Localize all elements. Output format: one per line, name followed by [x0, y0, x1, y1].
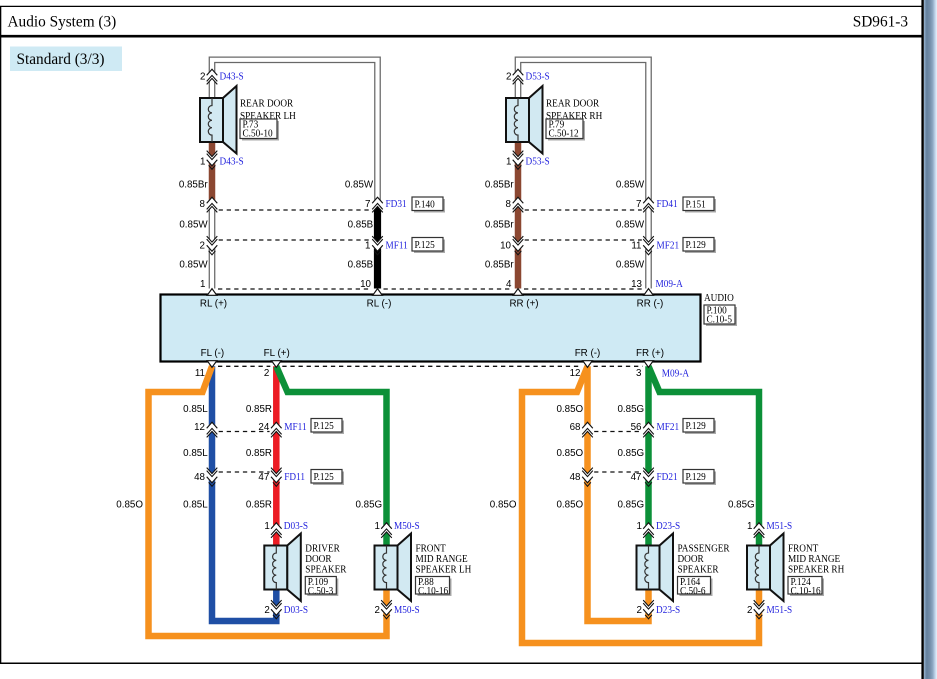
svg-text:P.129: P.129 — [686, 472, 706, 483]
svg-text:FRONT: FRONT — [788, 543, 819, 554]
svg-text:1: 1 — [637, 521, 642, 532]
svg-text:1: 1 — [747, 521, 752, 532]
svg-text:1: 1 — [200, 279, 205, 290]
svg-text:0.85G: 0.85G — [617, 500, 644, 511]
svg-text:0.85R: 0.85R — [246, 500, 272, 511]
svg-text:1: 1 — [506, 157, 511, 168]
svg-text:10: 10 — [500, 241, 511, 252]
svg-text:M50-S: M50-S — [394, 605, 420, 616]
svg-text:FL (+): FL (+) — [264, 348, 290, 359]
svg-text:C.50-3: C.50-3 — [308, 586, 334, 597]
svg-text:47: 47 — [258, 472, 269, 483]
svg-text:Standard (3/3): Standard (3/3) — [17, 51, 105, 68]
svg-text:C.50-10: C.50-10 — [243, 129, 273, 140]
svg-text:P.129: P.129 — [686, 421, 706, 432]
svg-text:SPEAKER RH: SPEAKER RH — [788, 565, 845, 576]
svg-text:M51-S: M51-S — [767, 605, 793, 616]
svg-text:RL (+): RL (+) — [200, 299, 227, 310]
svg-text:0.85O: 0.85O — [556, 404, 583, 415]
svg-text:0.85L: 0.85L — [183, 404, 208, 415]
svg-text:FD41: FD41 — [657, 199, 678, 210]
svg-text:3: 3 — [636, 368, 642, 379]
svg-text:48: 48 — [570, 472, 581, 483]
svg-text:MF11: MF11 — [386, 241, 408, 252]
svg-text:RR (+): RR (+) — [509, 299, 538, 310]
svg-text:SD961-3: SD961-3 — [853, 14, 909, 31]
svg-text:C.10-5: C.10-5 — [707, 315, 733, 326]
svg-text:0.85W: 0.85W — [616, 260, 645, 271]
svg-text:AUDIO: AUDIO — [704, 293, 734, 304]
svg-text:8: 8 — [506, 199, 512, 210]
svg-text:D23-S: D23-S — [656, 521, 680, 532]
svg-text:48: 48 — [194, 472, 205, 483]
svg-text:D53-S: D53-S — [526, 157, 550, 168]
svg-text:0.85O: 0.85O — [556, 448, 583, 459]
svg-text:47: 47 — [631, 472, 642, 483]
svg-text:P.151: P.151 — [686, 199, 706, 210]
svg-text:Audio System (3): Audio System (3) — [8, 14, 117, 31]
svg-text:REAR DOOR: REAR DOOR — [546, 98, 599, 109]
svg-text:P.140: P.140 — [415, 199, 435, 210]
svg-text:1: 1 — [365, 241, 370, 252]
svg-text:FR (+): FR (+) — [636, 348, 664, 359]
svg-text:D03-S: D03-S — [284, 605, 308, 616]
svg-text:0.85O: 0.85O — [556, 500, 583, 511]
svg-text:D23-S: D23-S — [656, 605, 680, 616]
svg-text:0.85O: 0.85O — [490, 500, 517, 511]
svg-text:0.85B: 0.85B — [348, 220, 374, 231]
svg-text:C.10-16: C.10-16 — [418, 586, 448, 597]
svg-text:D43-S: D43-S — [220, 72, 244, 83]
svg-text:FD31: FD31 — [386, 199, 407, 210]
svg-text:P.125: P.125 — [415, 240, 435, 251]
svg-text:2: 2 — [747, 605, 752, 616]
svg-text:DRIVER: DRIVER — [305, 543, 340, 554]
svg-text:2: 2 — [200, 72, 205, 83]
svg-text:2: 2 — [200, 241, 205, 252]
svg-text:0.85Br: 0.85Br — [179, 180, 209, 191]
svg-text:M09-A: M09-A — [662, 369, 690, 380]
svg-text:2: 2 — [264, 368, 269, 379]
svg-text:SPEAKER: SPEAKER — [305, 565, 346, 576]
svg-text:DOOR: DOOR — [305, 554, 331, 565]
svg-text:FL (-): FL (-) — [201, 348, 225, 359]
svg-text:1: 1 — [200, 157, 205, 168]
svg-text:10: 10 — [360, 279, 371, 290]
svg-text:C.10-16: C.10-16 — [791, 586, 821, 597]
svg-text:12: 12 — [570, 368, 581, 379]
svg-text:0.85R: 0.85R — [246, 404, 272, 415]
svg-text:0.85W: 0.85W — [616, 220, 645, 231]
svg-text:2: 2 — [506, 72, 511, 83]
svg-text:MF21: MF21 — [657, 241, 680, 252]
svg-text:0.85W: 0.85W — [179, 260, 208, 271]
svg-text:P.125: P.125 — [314, 421, 334, 432]
svg-text:REAR DOOR: REAR DOOR — [240, 98, 293, 109]
svg-text:0.85W: 0.85W — [345, 180, 374, 191]
svg-text:M51-S: M51-S — [767, 521, 793, 532]
svg-text:FD21: FD21 — [657, 472, 678, 483]
svg-text:7: 7 — [636, 199, 641, 210]
svg-text:2: 2 — [375, 605, 380, 616]
svg-text:D43-S: D43-S — [220, 157, 244, 168]
svg-text:1: 1 — [264, 521, 269, 532]
svg-text:MF11: MF11 — [284, 422, 306, 433]
svg-text:RR (-): RR (-) — [637, 299, 664, 310]
svg-text:0.85G: 0.85G — [355, 500, 382, 511]
svg-text:MID RANGE: MID RANGE — [416, 554, 468, 565]
svg-text:2: 2 — [637, 605, 642, 616]
svg-text:68: 68 — [570, 422, 581, 433]
svg-text:0.85W: 0.85W — [179, 220, 208, 231]
svg-text:0.85B: 0.85B — [348, 260, 374, 271]
svg-text:SPEAKER: SPEAKER — [678, 565, 719, 576]
svg-text:M50-S: M50-S — [394, 521, 420, 532]
svg-text:0.85O: 0.85O — [116, 500, 143, 511]
svg-text:D53-S: D53-S — [526, 72, 550, 83]
svg-text:4: 4 — [506, 279, 512, 290]
svg-text:C.50-6: C.50-6 — [680, 586, 706, 597]
svg-text:P.129: P.129 — [686, 240, 706, 251]
svg-text:0.85L: 0.85L — [183, 448, 208, 459]
svg-text:RL (-): RL (-) — [367, 299, 392, 310]
svg-text:P.125: P.125 — [314, 472, 334, 483]
svg-text:FD11: FD11 — [284, 472, 305, 483]
svg-text:FR (-): FR (-) — [575, 348, 601, 359]
svg-text:11: 11 — [631, 241, 641, 252]
svg-text:8: 8 — [200, 199, 206, 210]
svg-text:DOOR: DOOR — [678, 554, 704, 565]
svg-text:C.50-12: C.50-12 — [549, 129, 579, 140]
svg-text:PASSENGER: PASSENGER — [678, 543, 730, 554]
svg-text:24: 24 — [258, 422, 269, 433]
svg-text:0.85G: 0.85G — [728, 500, 755, 511]
svg-text:0.85Br: 0.85Br — [485, 220, 515, 231]
svg-text:12: 12 — [194, 422, 205, 433]
svg-text:2: 2 — [264, 605, 269, 616]
svg-text:MID RANGE: MID RANGE — [788, 554, 840, 565]
svg-text:0.85W: 0.85W — [616, 180, 645, 191]
svg-text:0.85Br: 0.85Br — [485, 180, 515, 191]
svg-text:0.85G: 0.85G — [617, 448, 644, 459]
svg-text:D03-S: D03-S — [284, 521, 308, 532]
svg-text:13: 13 — [631, 279, 642, 290]
svg-text:0.85G: 0.85G — [617, 404, 644, 415]
svg-text:SPEAKER LH: SPEAKER LH — [416, 565, 472, 576]
svg-text:M09-A: M09-A — [656, 279, 684, 290]
svg-text:0.85L: 0.85L — [183, 500, 208, 511]
svg-text:FRONT: FRONT — [416, 543, 447, 554]
svg-text:11: 11 — [195, 368, 205, 379]
svg-text:1: 1 — [375, 521, 380, 532]
svg-text:0.85Br: 0.85Br — [485, 260, 515, 271]
svg-text:7: 7 — [365, 199, 370, 210]
svg-text:0.85R: 0.85R — [246, 448, 272, 459]
svg-text:56: 56 — [631, 422, 642, 433]
svg-text:MF21: MF21 — [657, 422, 680, 433]
